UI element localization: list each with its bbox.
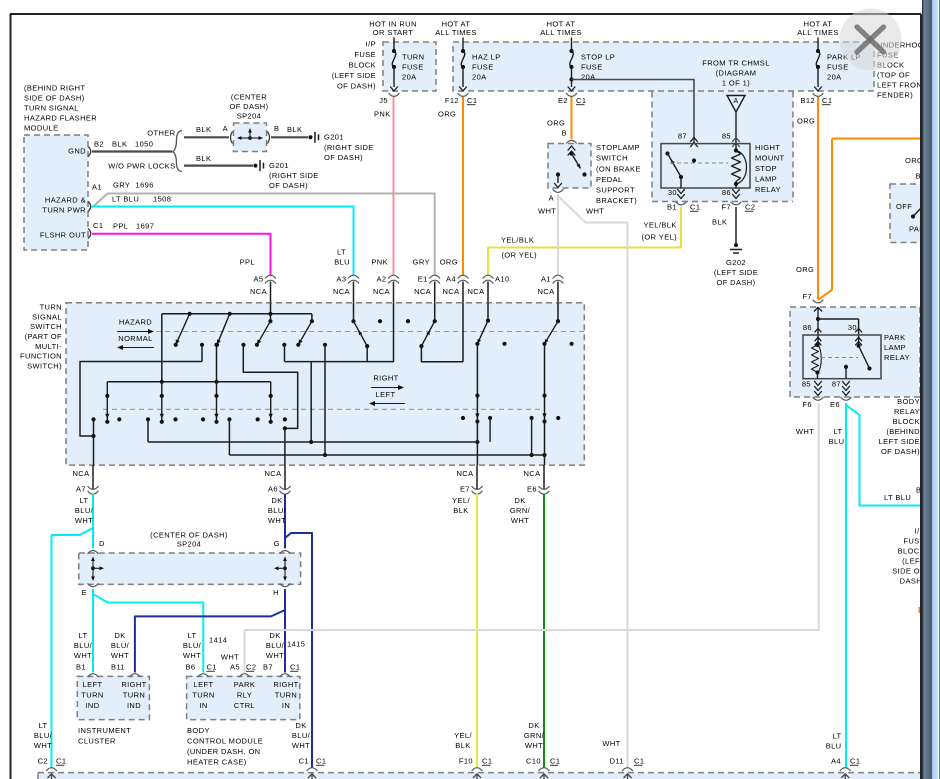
svg-text:B11: B11	[111, 663, 125, 672]
svg-text:BLU/: BLU/	[74, 641, 93, 650]
svg-text:FUSE: FUSE	[581, 63, 603, 72]
svg-text:OF DASH): OF DASH)	[229, 102, 268, 111]
svg-text:30: 30	[848, 323, 857, 332]
svg-text:C1: C1	[299, 757, 309, 766]
svg-text:YEL/: YEL/	[454, 731, 472, 740]
svg-text:C1: C1	[207, 663, 217, 672]
svg-text:FUSE: FUSE	[827, 63, 849, 72]
svg-text:YEL/: YEL/	[452, 496, 470, 505]
svg-text:DK: DK	[271, 496, 282, 505]
svg-text:HAZARD &: HAZARD &	[45, 196, 86, 205]
svg-text:D: D	[99, 539, 105, 548]
svg-text:TURN: TURN	[192, 691, 214, 700]
svg-text:(LEFT SIDE: (LEFT SIDE	[714, 268, 758, 277]
svg-text:C1: C1	[576, 96, 586, 105]
svg-text:B2: B2	[94, 140, 104, 149]
svg-text:BLK: BLK	[287, 125, 302, 134]
svg-text:GRN/: GRN/	[524, 731, 545, 740]
svg-text:BLK: BLK	[712, 218, 727, 227]
svg-text:ORG: ORG	[547, 119, 565, 128]
svg-text:G202: G202	[726, 258, 746, 267]
svg-text:H: H	[273, 588, 279, 597]
svg-text:NCA: NCA	[373, 287, 390, 296]
svg-text:E6: E6	[527, 485, 537, 494]
svg-text:F10: F10	[459, 757, 473, 766]
svg-text:LEFT FRONT: LEFT FRONT	[877, 81, 927, 90]
svg-text:BLU/: BLU/	[111, 641, 130, 650]
svg-text:LT: LT	[79, 631, 88, 640]
svg-text:MOUNT: MOUNT	[755, 154, 785, 163]
svg-text:DK: DK	[295, 721, 306, 730]
svg-text:SP204: SP204	[177, 540, 202, 549]
svg-text:(ON BRAKE: (ON BRAKE	[596, 164, 641, 173]
svg-text:OR START: OR START	[373, 28, 413, 37]
svg-text:LT BLU: LT BLU	[884, 493, 911, 502]
svg-text:IN: IN	[282, 701, 290, 710]
svg-text:RLY: RLY	[237, 691, 252, 700]
svg-text:G201: G201	[324, 133, 344, 142]
svg-text:MULTI-: MULTI-	[35, 342, 62, 351]
svg-text:C1: C1	[690, 203, 700, 212]
svg-text:A5: A5	[230, 663, 240, 672]
svg-text:WHT: WHT	[292, 741, 310, 750]
svg-text:FENDER): FENDER)	[877, 91, 913, 100]
svg-text:J5: J5	[379, 96, 388, 105]
svg-text:RELAY: RELAY	[755, 185, 781, 194]
svg-text:(DIAGRAM: (DIAGRAM	[716, 69, 757, 78]
svg-text:(OR YEL): (OR YEL)	[642, 233, 678, 242]
svg-text:LEFT: LEFT	[83, 680, 103, 689]
svg-text:87: 87	[678, 132, 687, 141]
svg-text:BRACKET): BRACKET)	[596, 196, 637, 205]
svg-text:ORG: ORG	[440, 258, 458, 267]
svg-text:WHT: WHT	[538, 207, 556, 216]
svg-text:A4: A4	[446, 275, 456, 284]
svg-text:NCA: NCA	[250, 287, 267, 296]
svg-text:GRY: GRY	[113, 181, 130, 190]
svg-text:DK: DK	[514, 496, 525, 505]
svg-text:BLU/: BLU/	[268, 506, 287, 515]
svg-text:WHT: WHT	[75, 516, 93, 525]
svg-text:BODY: BODY	[187, 726, 210, 735]
svg-text:C1: C1	[56, 757, 66, 766]
svg-text:PEDAL: PEDAL	[596, 175, 623, 184]
svg-text:G: G	[274, 539, 280, 548]
svg-text:STOPLAMP: STOPLAMP	[596, 143, 640, 152]
svg-text:B12: B12	[800, 96, 815, 105]
svg-text:SWITCH): SWITCH)	[27, 361, 62, 370]
svg-text:C1: C1	[482, 757, 492, 766]
svg-text:I/P: I/P	[366, 40, 376, 49]
svg-text:OF DASH): OF DASH)	[269, 181, 308, 190]
svg-text:B: B	[562, 129, 567, 138]
svg-text:FUSE: FUSE	[472, 63, 494, 72]
svg-text:E1: E1	[418, 275, 428, 284]
svg-text:A4: A4	[831, 757, 841, 766]
svg-text:DK: DK	[114, 631, 125, 640]
svg-text:20A: 20A	[472, 73, 487, 82]
svg-text:LT: LT	[834, 427, 843, 436]
svg-text:SP204: SP204	[237, 112, 262, 121]
svg-text:HIGHT: HIGHT	[755, 143, 780, 152]
svg-text:NCA: NCA	[72, 469, 89, 478]
svg-text:F7: F7	[802, 292, 812, 301]
svg-text:PARK: PARK	[234, 680, 255, 689]
svg-text:CONTROL MODULE: CONTROL MODULE	[187, 737, 263, 746]
svg-text:85: 85	[802, 380, 811, 389]
svg-text:FUSE: FUSE	[402, 63, 424, 72]
svg-text:LT: LT	[80, 496, 89, 505]
svg-text:F12: F12	[445, 96, 459, 105]
svg-text:GRN/: GRN/	[510, 506, 531, 515]
svg-text:LT: LT	[833, 732, 842, 741]
svg-text:NORMAL: NORMAL	[118, 334, 153, 343]
svg-text:86: 86	[722, 188, 731, 197]
svg-text:1508: 1508	[153, 195, 171, 204]
svg-text:1050: 1050	[135, 140, 153, 149]
svg-text:OTHER: OTHER	[147, 129, 175, 138]
svg-text:NCA: NCA	[467, 287, 484, 296]
svg-text:ALL TIMES: ALL TIMES	[540, 28, 582, 37]
svg-text:RELAY: RELAY	[884, 353, 910, 362]
svg-text:HAZARD: HAZARD	[119, 318, 152, 327]
svg-text:BLK: BLK	[455, 741, 470, 750]
svg-text:WHT: WHT	[183, 651, 201, 660]
svg-text:(CENTER OF DASH): (CENTER OF DASH)	[150, 531, 228, 540]
svg-text:FUSE: FUSE	[354, 50, 376, 59]
svg-text:WHT: WHT	[34, 741, 52, 750]
svg-text:ALL TIMES: ALL TIMES	[797, 28, 839, 37]
svg-text:1414: 1414	[209, 636, 227, 645]
svg-text:86: 86	[803, 323, 812, 332]
svg-text:PNK: PNK	[374, 110, 391, 119]
svg-text:TURN: TURN	[275, 691, 297, 700]
svg-text:BLOCK: BLOCK	[893, 417, 920, 426]
svg-text:WHT: WHT	[266, 651, 284, 660]
svg-text:BLU: BLU	[826, 742, 842, 751]
svg-text:LAMP: LAMP	[884, 343, 906, 352]
svg-text:IND: IND	[127, 701, 141, 710]
svg-text:A: A	[733, 98, 738, 105]
svg-text:BODY: BODY	[897, 397, 920, 406]
svg-text:ORG: ORG	[796, 265, 814, 274]
svg-text:W/O PWR LOCKS: W/O PWR LOCKS	[108, 162, 175, 171]
svg-text:STOP LP: STOP LP	[581, 53, 615, 62]
svg-text:LT: LT	[188, 631, 197, 640]
svg-text:IND: IND	[85, 701, 99, 710]
svg-text:(TOP OF: (TOP OF	[877, 71, 910, 80]
svg-text:C1: C1	[634, 757, 644, 766]
svg-text:FROM TR CHMSL: FROM TR CHMSL	[702, 59, 770, 68]
svg-text:LT: LT	[39, 721, 48, 730]
svg-text:B1: B1	[76, 663, 86, 672]
svg-text:E7: E7	[460, 485, 470, 494]
svg-text:(RIGHT SIDE: (RIGHT SIDE	[269, 171, 319, 180]
svg-text:1697: 1697	[136, 222, 154, 231]
svg-text:TURN SIGNAL: TURN SIGNAL	[24, 104, 79, 113]
svg-text:WHT: WHT	[796, 427, 814, 436]
svg-text:IN: IN	[199, 701, 207, 710]
svg-text:1696: 1696	[136, 181, 154, 190]
svg-text:HEATER CASE): HEATER CASE)	[187, 758, 247, 767]
svg-text:C1: C1	[93, 221, 103, 230]
svg-text:WHT: WHT	[602, 739, 620, 748]
svg-text:WHT: WHT	[511, 516, 529, 525]
svg-text:(UNDER DASH, ON: (UNDER DASH, ON	[187, 747, 261, 756]
svg-text:BLU: BLU	[829, 437, 845, 446]
svg-text:B1: B1	[667, 203, 677, 212]
svg-text:A6: A6	[268, 485, 278, 494]
svg-text:LEFT: LEFT	[376, 390, 396, 399]
svg-text:NCA: NCA	[264, 469, 281, 478]
svg-text:ORG: ORG	[797, 117, 815, 126]
svg-text:OF DASH): OF DASH)	[337, 82, 376, 91]
svg-text:CLUSTER: CLUSTER	[78, 737, 116, 746]
svg-text:B7: B7	[263, 663, 273, 672]
svg-text:NCA: NCA	[456, 469, 473, 478]
svg-text:BLU/: BLU/	[266, 641, 285, 650]
svg-text:A5: A5	[254, 275, 264, 284]
svg-text:BLU/: BLU/	[34, 731, 53, 740]
svg-text:NCA: NCA	[442, 287, 459, 296]
svg-text:BLK: BLK	[196, 125, 211, 134]
svg-text:C2: C2	[246, 663, 256, 672]
svg-text:C1: C1	[850, 757, 860, 766]
svg-text:(OR YEL): (OR YEL)	[502, 251, 538, 260]
svg-text:WHT: WHT	[268, 516, 286, 525]
svg-text:(RIGHT SIDE: (RIGHT SIDE	[324, 143, 374, 152]
svg-text:A3: A3	[337, 275, 347, 284]
svg-text:NCA: NCA	[537, 287, 554, 296]
svg-text:B: B	[274, 124, 279, 133]
svg-text:WHT: WHT	[586, 207, 604, 216]
svg-text:20A: 20A	[402, 73, 417, 82]
svg-text:OF DASH): OF DASH)	[881, 447, 920, 456]
svg-text:YEL/BLK: YEL/BLK	[501, 236, 534, 245]
svg-text:(CENTER: (CENTER	[231, 93, 267, 102]
svg-text:85: 85	[722, 132, 731, 141]
svg-text:E6: E6	[830, 400, 840, 409]
svg-text:ALL TIMES: ALL TIMES	[435, 28, 477, 37]
svg-text:SIDE OF DASH): SIDE OF DASH)	[24, 94, 85, 103]
svg-text:RIGHT: RIGHT	[273, 680, 298, 689]
svg-text:BLU: BLU	[334, 258, 350, 267]
svg-text:A1: A1	[92, 183, 102, 192]
svg-text:BLK: BLK	[196, 154, 211, 163]
svg-text:C10: C10	[526, 757, 541, 766]
svg-text:FLSHR OUT: FLSHR OUT	[40, 231, 86, 240]
svg-text:G201: G201	[269, 161, 289, 170]
svg-text:STOP: STOP	[755, 164, 777, 173]
svg-text:LEFT SIDE: LEFT SIDE	[879, 437, 920, 446]
svg-text:A: A	[549, 194, 554, 203]
svg-text:LT BLU: LT BLU	[112, 195, 139, 204]
svg-text:BLU/: BLU/	[75, 506, 94, 515]
svg-text:TURN: TURN	[40, 303, 62, 312]
svg-text:LAMP: LAMP	[755, 175, 777, 184]
svg-text:1415: 1415	[287, 640, 305, 649]
svg-text:TURN PWR: TURN PWR	[42, 206, 86, 215]
svg-text:C2: C2	[38, 757, 48, 766]
svg-text:87: 87	[832, 380, 841, 389]
svg-text:A7: A7	[76, 485, 86, 494]
svg-text:NCA: NCA	[333, 287, 350, 296]
svg-text:LEFT: LEFT	[194, 680, 214, 689]
svg-text:C1: C1	[822, 96, 832, 105]
svg-text:(LEFT SIDE: (LEFT SIDE	[332, 71, 376, 80]
svg-text:MODULE: MODULE	[24, 124, 59, 133]
svg-text:RIGHT: RIGHT	[121, 680, 146, 689]
svg-text:F6: F6	[802, 400, 812, 409]
svg-text:A10: A10	[495, 275, 510, 284]
svg-text:OFF: OFF	[896, 202, 912, 211]
svg-text:TURN: TURN	[402, 53, 424, 62]
svg-text:A2: A2	[377, 275, 387, 284]
svg-text:TURN: TURN	[81, 691, 103, 700]
svg-text:B6: B6	[186, 663, 196, 672]
svg-text:TURN: TURN	[123, 691, 145, 700]
svg-text:D11: D11	[610, 757, 624, 766]
svg-text:WHT: WHT	[111, 651, 129, 660]
svg-text:OF DASH): OF DASH)	[716, 278, 755, 287]
svg-text:BLK: BLK	[112, 140, 127, 149]
svg-text:30: 30	[668, 188, 677, 197]
svg-text:BLU/: BLU/	[183, 641, 202, 650]
svg-text:C1: C1	[467, 96, 477, 105]
svg-text:A1: A1	[541, 275, 551, 284]
svg-text:WHT: WHT	[525, 741, 543, 750]
svg-text:SIGNAL: SIGNAL	[32, 312, 62, 321]
svg-text:GRY: GRY	[413, 258, 430, 267]
svg-text:GND: GND	[68, 147, 86, 156]
svg-text:PARK: PARK	[884, 333, 905, 342]
svg-text:BLOCK: BLOCK	[349, 61, 376, 70]
svg-text:DK: DK	[269, 631, 280, 640]
svg-text:BLK: BLK	[453, 506, 468, 515]
svg-text:WHT: WHT	[74, 651, 92, 660]
svg-text:NCA: NCA	[523, 469, 540, 478]
svg-text:NCA: NCA	[414, 287, 431, 296]
svg-text:CTRL: CTRL	[234, 701, 255, 710]
svg-text:RELAY: RELAY	[894, 407, 920, 416]
svg-text:HAZARD FLASHER: HAZARD FLASHER	[24, 114, 97, 123]
svg-text:ORG: ORG	[438, 110, 456, 119]
svg-text:C1: C1	[290, 663, 300, 672]
svg-text:PPL: PPL	[240, 258, 255, 267]
svg-text:OF DASH): OF DASH)	[324, 153, 363, 162]
svg-text:BLU/: BLU/	[292, 731, 311, 740]
svg-text:LT: LT	[337, 248, 346, 257]
svg-text:A: A	[223, 124, 228, 133]
svg-text:YEL/BLK: YEL/BLK	[644, 221, 677, 230]
svg-text:C1: C1	[550, 757, 560, 766]
svg-text:SWITCH: SWITCH	[596, 154, 628, 163]
svg-text:FUNCTION: FUNCTION	[20, 352, 62, 361]
svg-text:C2: C2	[745, 203, 755, 212]
svg-text:WHT: WHT	[221, 653, 239, 662]
svg-text:F7: F7	[721, 203, 731, 212]
svg-text:E: E	[82, 588, 87, 597]
svg-text:PNK: PNK	[371, 258, 388, 267]
svg-text:C1: C1	[316, 757, 326, 766]
svg-text:1 OF 1): 1 OF 1)	[722, 79, 750, 88]
svg-text:SWITCH: SWITCH	[30, 322, 62, 331]
svg-text:(PART OF: (PART OF	[25, 332, 62, 341]
svg-text:E2: E2	[558, 96, 568, 105]
svg-text:SUPPORT: SUPPORT	[596, 186, 635, 195]
svg-text:(BEHIND RIGHT: (BEHIND RIGHT	[24, 84, 85, 93]
svg-text:(BEHIND: (BEHIND	[886, 427, 920, 436]
svg-text:20A: 20A	[827, 73, 842, 82]
svg-text:PPL: PPL	[113, 222, 128, 231]
svg-text:RIGHT: RIGHT	[373, 374, 398, 383]
svg-text:HAZ LP: HAZ LP	[472, 53, 501, 62]
svg-text:INSTRUMENT: INSTRUMENT	[78, 726, 131, 735]
svg-text:DK: DK	[528, 721, 539, 730]
